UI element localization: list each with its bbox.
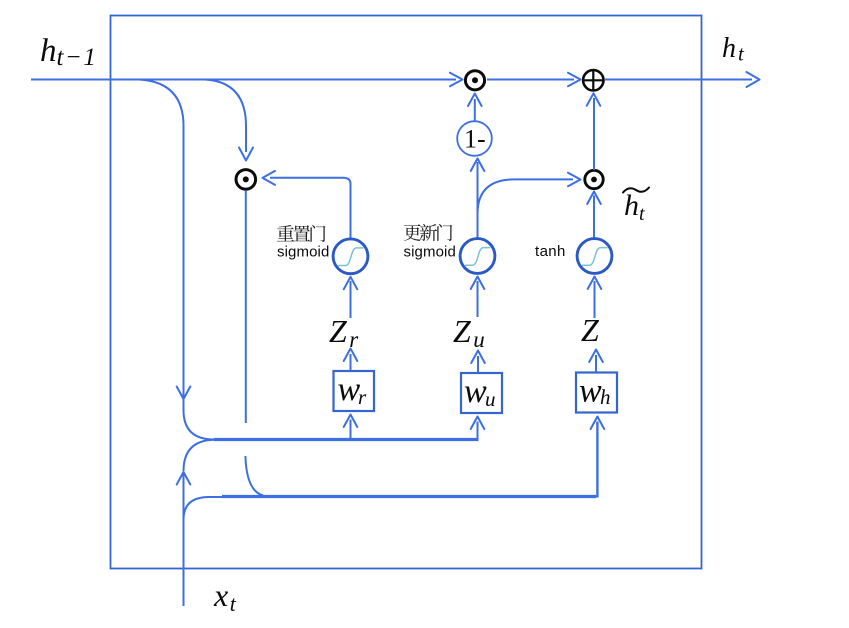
wire x(t) branch curve into line B	[184, 497, 225, 519]
concat line B [r*h(t-1),x(t)] feeding W_h	[222, 495, 596, 498]
arrowhead into S1 bottom	[344, 277, 358, 290]
wire U1 output down	[245, 190, 247, 423]
svg-text:w: w	[579, 373, 602, 410]
arrow line A up into W_u	[477, 422, 479, 439]
arrowhead h(t) output	[747, 72, 760, 87]
wire Z to S3	[594, 281, 596, 318]
wire x(t) curve into line A	[184, 440, 215, 471]
arrowhead into U1 top	[239, 148, 253, 161]
label reset-gate chinese	[277, 225, 326, 242]
arrowhead up on x(t) line	[177, 472, 191, 485]
svg-text:Z: Z	[581, 312, 600, 348]
activation circle S2 sigmoid update	[460, 239, 495, 274]
wire sigmoid S1 output to U1	[270, 178, 351, 239]
wire U2 to add node	[487, 79, 574, 81]
GRU cell outer box	[111, 16, 702, 569]
arrowhead into S3 bottom	[588, 277, 602, 290]
wire branch from update gate to U3	[478, 179, 574, 214]
label update-gate chinese	[404, 224, 453, 241]
arrowhead into add node bottom	[587, 93, 601, 106]
svg-text:sigmoid: sigmoid	[404, 244, 456, 261]
arrowhead into U3 bottom	[587, 192, 601, 205]
svg-text:h: h	[600, 385, 611, 409]
svg-text:u: u	[485, 387, 496, 411]
svg-text:1-: 1-	[464, 125, 486, 154]
arrowhead down on branch A	[177, 387, 191, 400]
node U2 update-gate elementwise-multiply circled-dot	[465, 71, 484, 90]
arrowhead into U3 left	[568, 173, 581, 187]
arrowhead into node U2	[450, 73, 463, 87]
wire Z_r to S1	[350, 281, 352, 318]
wire Z_u to S2	[477, 281, 479, 317]
wire U1 output curve into concat line B	[245, 456, 263, 495]
wire h(t-1) input line	[31, 79, 456, 81]
svg-text:w: w	[464, 373, 487, 410]
svg-text:sigmoid: sigmoid	[277, 244, 329, 261]
arrowhead into U2 bottom	[468, 94, 482, 107]
activation circle S1 sigmoid reset	[333, 239, 368, 274]
arrow W_h to Z (via tanh path)	[595, 355, 597, 372]
concat line A [h(t-1),x(t)] feeding W_r and W_u	[214, 438, 479, 441]
svg-text:tanh: tanh	[535, 243, 566, 260]
wire branch h(t-1) down to concat line A	[139, 80, 214, 440]
activation circle S3 tanh	[577, 239, 612, 274]
arrow W_r to Z_r	[350, 354, 352, 371]
arrow line A up into W_r	[350, 420, 352, 439]
arrowhead into 1-minus bottom	[471, 159, 485, 172]
wire x(t) input vertical	[183, 473, 185, 606]
weight box W_r	[334, 371, 375, 411]
weight box W_u	[461, 373, 502, 413]
wire add node to h(t) output	[605, 79, 752, 81]
weight box W_h	[576, 373, 617, 413]
arrowhead into W_h bottom	[591, 417, 605, 430]
arrowhead into S2 bottom	[471, 277, 485, 290]
circle 1-minus	[457, 121, 492, 156]
node add circled-plus	[583, 70, 603, 90]
arrow W_u to Z_u	[477, 356, 479, 373]
wire sigmoid S2 output up to 1-minus	[477, 162, 479, 238]
tilde accent	[623, 188, 649, 193]
wire U3 up to add node	[593, 98, 595, 170]
wire tanh S3 output up to U3	[593, 196, 595, 239]
arrowhead into add node	[568, 73, 581, 87]
arrowhead into U1 right side	[263, 171, 276, 185]
svg-text:r: r	[358, 385, 367, 409]
wire line B up into W_h	[596, 422, 598, 498]
wire branch h(t-1) down into reset multiply U1	[205, 80, 246, 153]
node U3 candidate elementwise-multiply circled-dot	[585, 170, 603, 188]
wire 1-minus up to U2	[474, 99, 476, 121]
node U1 reset elementwise-multiply circled-dot	[236, 170, 256, 190]
